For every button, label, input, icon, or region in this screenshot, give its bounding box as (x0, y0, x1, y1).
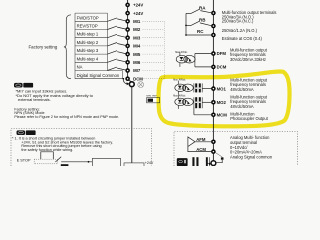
svg-text:NA: NA (77, 65, 83, 70)
wire DCM (right) (195, 66, 211, 68)
jumper pins near ACM (192, 157, 207, 166)
junction E-stop (88, 161, 90, 163)
svg-text:Multi-step 3: Multi-step 3 (77, 48, 99, 53)
svg-text:FWD/STOP: FWD/STOP (77, 15, 99, 20)
svg-text:MCM: MCM (217, 113, 228, 118)
wire MO1 (202, 88, 211, 90)
terminal MI5 (125, 52, 141, 57)
terminal RA (211, 11, 216, 16)
wire bus jog to ground ring (128, 80, 132, 83)
terminal MO1 (211, 86, 226, 91)
svg-text:RB: RB (199, 18, 206, 23)
DFM ratings text (230, 47, 268, 62)
svg-text:MO2: MO2 (217, 100, 227, 105)
dashed safety note box (11, 129, 152, 166)
svg-text:DCM: DCM (217, 65, 227, 70)
switch FWD/STOP blade (108, 18, 126, 71)
terminal MI2 (125, 27, 141, 32)
svg-text:Analog Signal common: Analog Signal common (230, 155, 273, 160)
switch REV/STOP blade (108, 26, 118, 29)
svg-text:Multi-step 1: Multi-step 1 (77, 32, 99, 37)
svg-text:Factory setting: Factory setting (29, 44, 58, 49)
terminal MI4 (125, 44, 141, 49)
svg-text:MO1: MO1 (217, 86, 227, 91)
factory setting text (14, 107, 119, 119)
svg-text:Max: 48Vdc: Max: 48Vdc (173, 96, 186, 98)
switch Multi-step 2 blade (108, 43, 118, 46)
note badge 2 (17, 130, 36, 135)
E-stop blade (55, 157, 61, 162)
svg-text:48Vdc/50mA: 48Vdc/50mA (230, 104, 254, 109)
NPN/PNP slide switch (146, 96, 159, 103)
E-stop dashed contact box (34, 159, 57, 164)
terminal RC (211, 33, 216, 38)
terminal ring left (earth) (129, 82, 134, 87)
svg-text:external terminals.: external terminals. (18, 97, 51, 102)
svg-text:+24V: +24V (145, 161, 154, 165)
svg-text:MI2: MI2 (133, 27, 141, 32)
terminal AFM (211, 140, 216, 145)
analog output text (230, 135, 273, 160)
wire left bus lower (131, 87, 133, 163)
jumper link at right ring (216, 157, 223, 162)
switch Multi-step 3 blade (108, 51, 118, 54)
dashed analog section box (174, 131, 297, 166)
yellow highlighter loop (159, 72, 290, 127)
switch NA blade (108, 67, 118, 70)
wire MCM common (194, 107, 211, 114)
relay ratings text (222, 10, 277, 41)
terminal DCM (right) (211, 65, 227, 70)
terminal RB (211, 24, 216, 29)
svg-text:30Vdc/30mA 33kHz: 30Vdc/30mA 33kHz (230, 57, 266, 62)
terminal DCM (125, 76, 143, 81)
svg-text:Please refer to Figure 2 for w: Please refer to Figure 2 for wiring of N… (14, 115, 119, 119)
MO2 connector bars (194, 97, 202, 108)
dotted vertical internal bus (163, 21, 165, 79)
svg-text:Max: 48Vdc: Max: 48Vdc (173, 80, 186, 82)
terminal MI1 (125, 19, 141, 24)
junction relay RC (185, 34, 187, 36)
svg-text:ACM: ACM (196, 147, 206, 152)
wire right output bus (212, 0, 214, 161)
component black module (cut) (177, 158, 188, 166)
MO1 connector bars (194, 83, 202, 92)
svg-text:NPN PNP: NPN PNP (146, 96, 157, 98)
svg-text:E STOP: E STOP (17, 158, 31, 162)
note text upper (MI7 33kHz) (16, 89, 94, 102)
svg-text:AFM: AFM (196, 137, 206, 142)
MO ratings text (230, 77, 268, 121)
terminal block inner box (124, 163, 144, 171)
svg-text:Max: 30Vdc: Max: 30Vdc (175, 52, 188, 54)
ground arrow at right ring (206, 161, 211, 166)
jumper dark bar (61, 164, 69, 166)
switch box stack frame (75, 13, 123, 79)
switch row labels (77, 15, 120, 78)
screw symbol (gray) (138, 82, 144, 88)
op-amp AFM buffer (188, 137, 195, 147)
optocoupler MO2 (175, 95, 194, 109)
relay changeover contact RA/RB/RC (186, 9, 211, 35)
svg-text:Digital Signal Common: Digital Signal Common (77, 73, 120, 78)
svg-text:RA: RA (199, 5, 206, 10)
svg-text:250Vac/1.2A (N.O.): 250Vac/1.2A (N.O.) (222, 28, 258, 33)
wire to jumper block (61, 161, 92, 163)
terminal MO2 (211, 100, 226, 105)
svg-text:DFM: DFM (217, 51, 227, 56)
svg-text:Estimate at COS (0.4): Estimate at COS (0.4) (222, 36, 263, 41)
svg-text:250Vac/3A (N.C.): 250Vac/3A (N.C.) (222, 18, 254, 23)
wire AFM (195, 141, 211, 143)
svg-text:MI5: MI5 (133, 52, 141, 57)
switch Multi-step 4 blade (108, 59, 118, 62)
svg-text:REV/STOP: REV/STOP (77, 24, 98, 29)
terminal +24V (2) (125, 11, 143, 16)
switch Multi-step 1 blade (108, 34, 118, 37)
terminal ring right (earth) (211, 161, 216, 166)
leader line to ACM (216, 153, 223, 158)
terminal ACM (211, 149, 216, 154)
svg-text:Multi-step 2: Multi-step 2 (77, 40, 99, 45)
svg-text:NOTE: NOTE (25, 84, 34, 88)
svg-text:DCM: DCM (133, 76, 143, 81)
note badge 1 (14, 83, 33, 88)
terminal DFM (211, 51, 226, 56)
brace factory setting (64, 15, 71, 79)
optocoupler MO1 (175, 81, 194, 95)
terminal block box (92, 158, 120, 168)
svg-text:Multi-step 4: Multi-step 4 (77, 56, 99, 61)
safety note text (12, 136, 113, 152)
svg-text:+24V: +24V (133, 11, 143, 16)
svg-text:Photocoupler Output: Photocoupler Output (230, 116, 268, 121)
svg-text:NOTE: NOTE (27, 131, 36, 135)
optocoupler DFM (176, 52, 195, 67)
ground arrow at left ring (123, 78, 130, 85)
svg-text:MI4: MI4 (133, 44, 141, 49)
wire right bus below ring (212, 165, 214, 168)
terminal +24V (1) (125, 3, 143, 8)
wire MO2 (202, 101, 211, 103)
terminal MI6 (125, 60, 141, 65)
wire left +24V/MI bus (127, 0, 129, 80)
terminal MI7 (125, 68, 141, 73)
svg-text:RC: RC (197, 29, 204, 34)
svg-text:MI6: MI6 (133, 60, 141, 65)
terminal MCM (211, 113, 227, 118)
svg-text:48Vdc/50mA: 48Vdc/50mA (230, 87, 254, 92)
dotted internal wires MI1-DCM (143, 21, 165, 79)
svg-text:+24V: +24V (133, 3, 143, 8)
svg-text:MI3: MI3 (133, 35, 141, 40)
svg-text:MI1: MI1 (133, 19, 141, 24)
wire DFM (195, 53, 211, 55)
svg-text:MI7: MI7 (133, 68, 141, 73)
E-stop pushbutton (41, 152, 54, 159)
terminal MI3 (125, 35, 141, 40)
junction relay RB (185, 25, 187, 27)
wire ACM (188, 147, 211, 152)
